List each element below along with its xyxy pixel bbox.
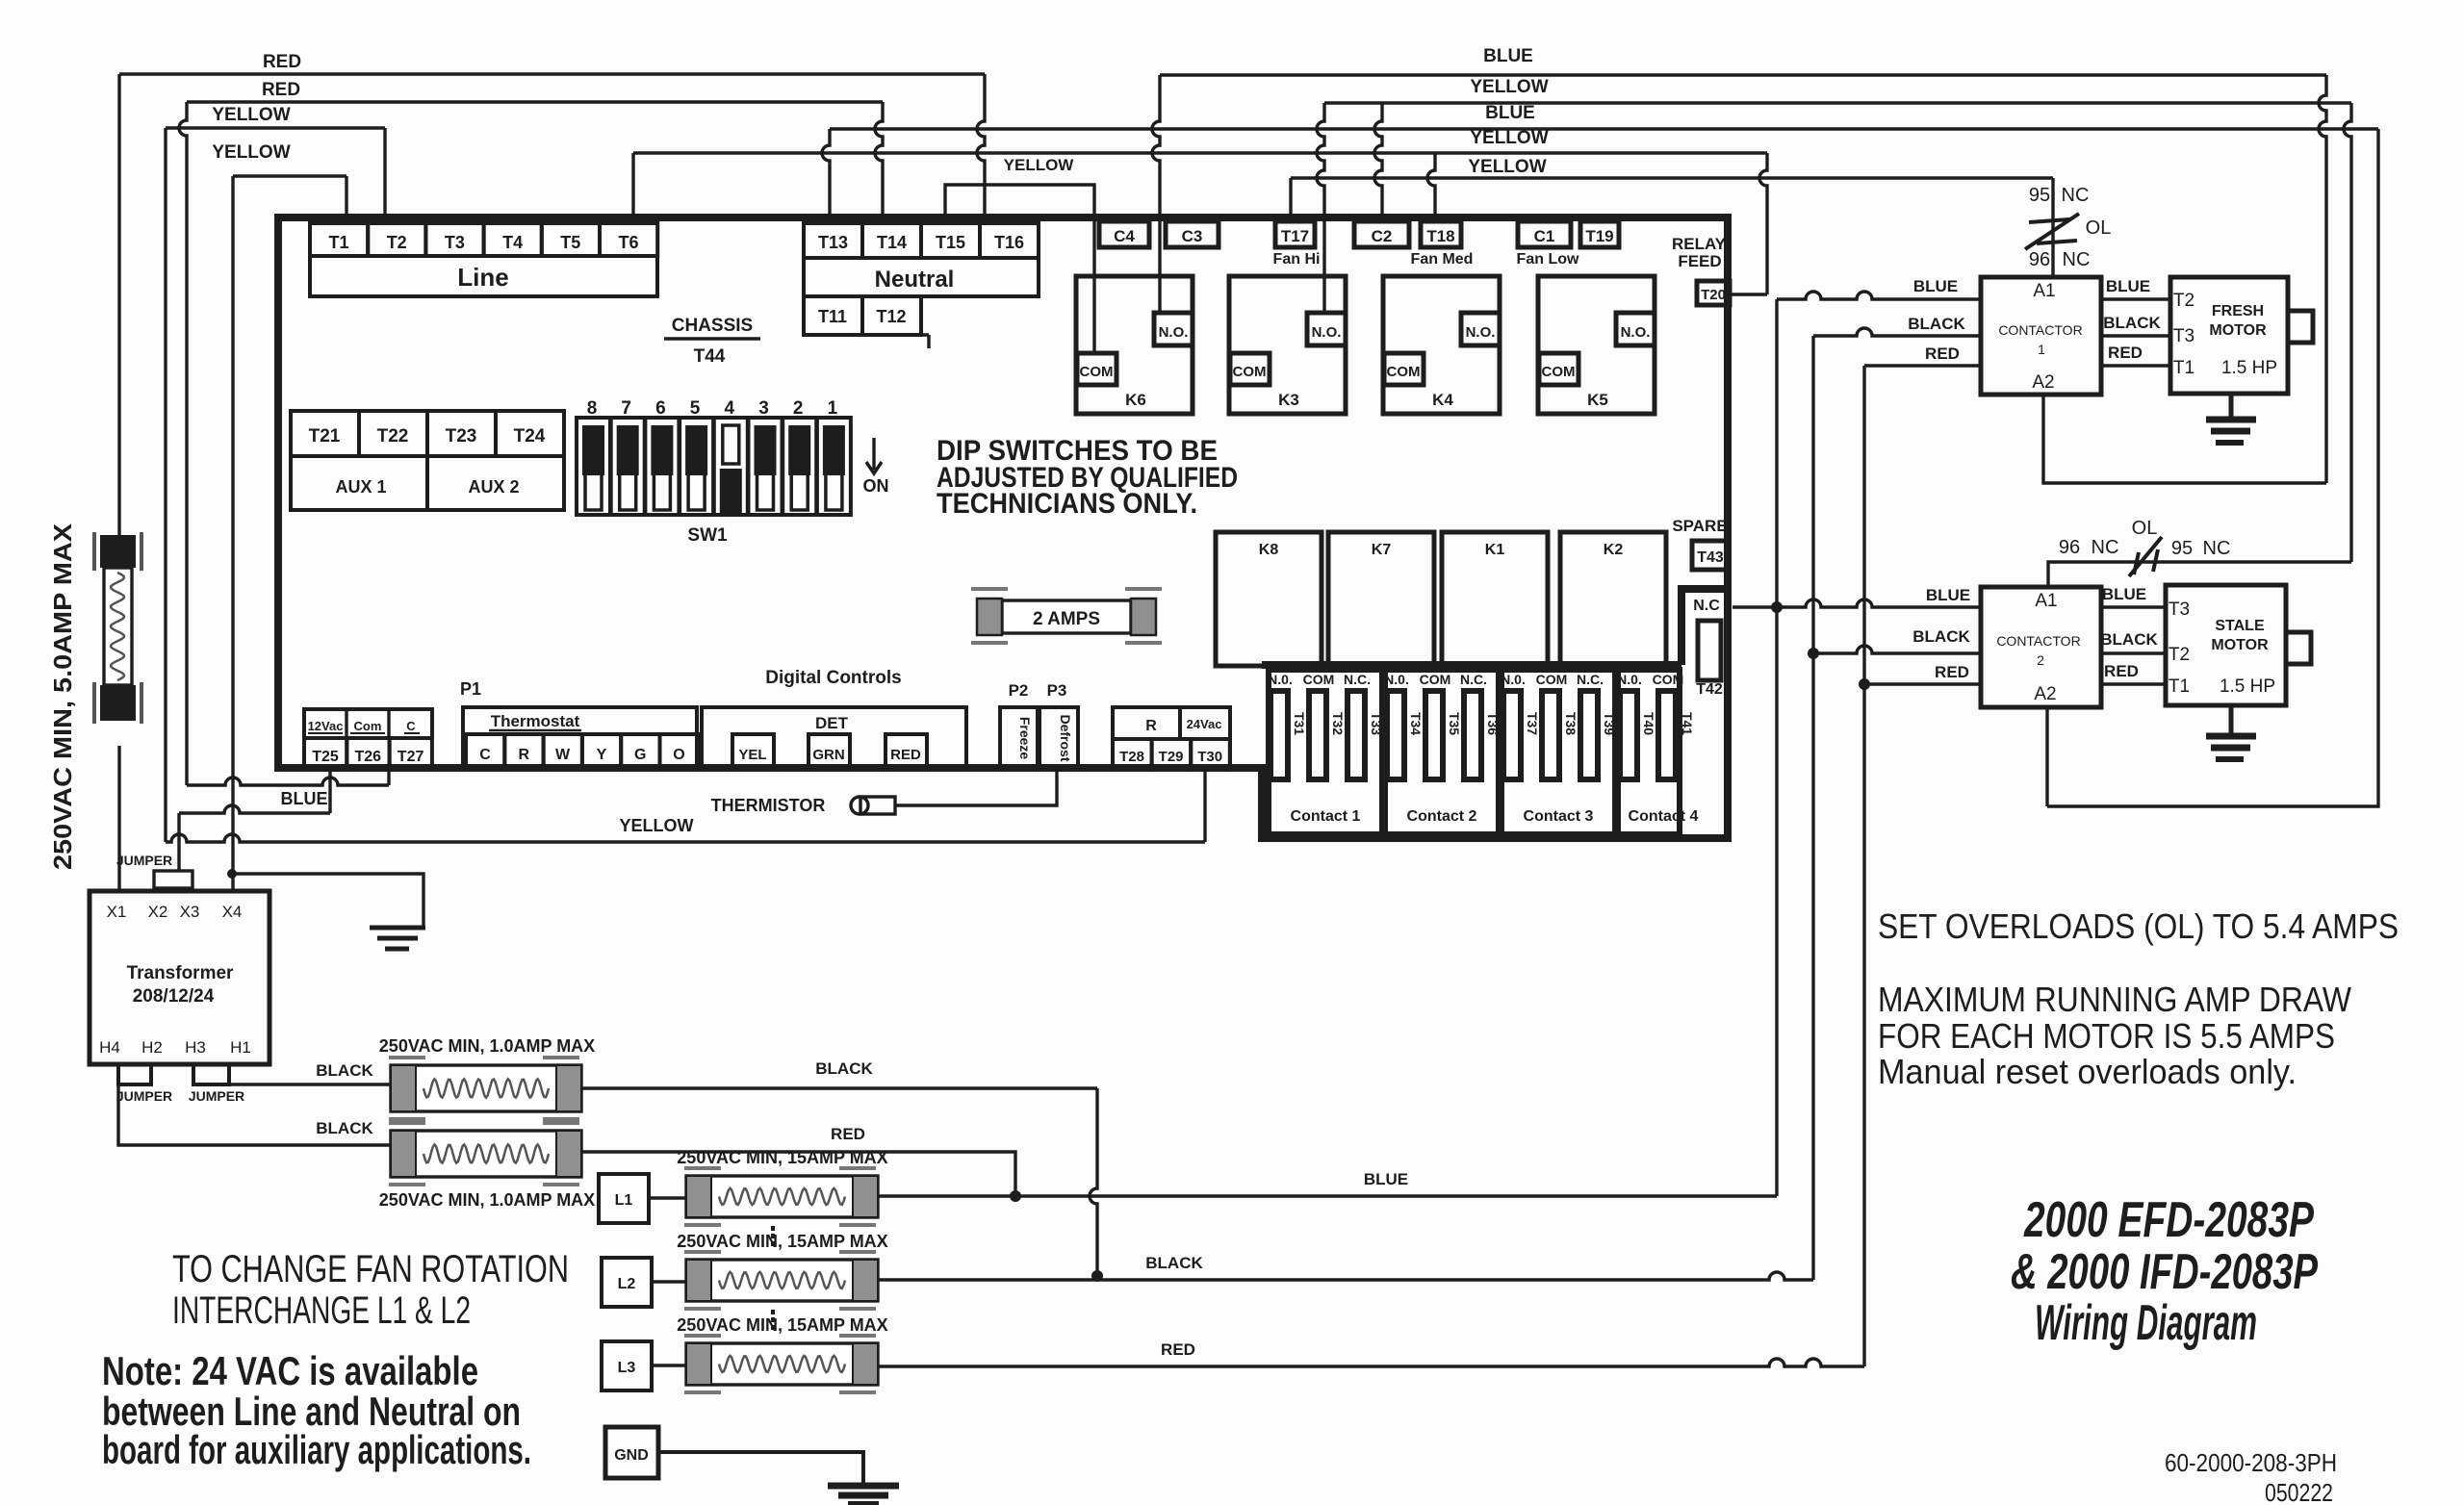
svg-text:H3: H3 xyxy=(185,1038,206,1057)
svg-text:RED: RED xyxy=(1925,344,1960,363)
svg-text:O: O xyxy=(673,747,684,763)
svg-text:T2: T2 xyxy=(2173,291,2194,311)
svg-text:ON: ON xyxy=(863,476,889,496)
svg-text:N.0.: N.0. xyxy=(1384,672,1409,687)
svg-text:YELLOW: YELLOW xyxy=(212,142,290,163)
svg-text:208/12/24: 208/12/24 xyxy=(133,986,215,1007)
svg-text:THERMISTOR: THERMISTOR xyxy=(711,796,826,815)
svg-text:T3: T3 xyxy=(2173,326,2194,346)
svg-text:N.O.: N.O. xyxy=(1466,324,1496,341)
svg-text:C4: C4 xyxy=(1114,227,1135,245)
svg-text:T37: T37 xyxy=(1525,712,1540,735)
svg-text:T34: T34 xyxy=(1408,712,1424,735)
svg-text:T12: T12 xyxy=(876,307,906,326)
svg-text:050222: 050222 xyxy=(2265,1478,2333,1505)
svg-text:24Vac: 24Vac xyxy=(1187,717,1222,731)
svg-text:1.5 HP: 1.5 HP xyxy=(2220,676,2275,697)
svg-text:K8: K8 xyxy=(1259,542,1279,558)
svg-text:2: 2 xyxy=(2037,652,2044,668)
svg-text:250VAC MIN, 5.0AMP MAX: 250VAC MIN, 5.0AMP MAX xyxy=(48,523,77,870)
svg-text:K2: K2 xyxy=(1604,542,1624,558)
svg-text:P2: P2 xyxy=(1009,681,1029,700)
svg-text:3: 3 xyxy=(758,398,769,419)
svg-text:JUMPER: JUMPER xyxy=(116,1088,172,1104)
svg-text:250VAC MIN, 15AMP MAX: 250VAC MIN, 15AMP MAX xyxy=(677,1148,887,1167)
svg-text:250VAC MIN, 15AMP MAX: 250VAC MIN, 15AMP MAX xyxy=(677,1232,887,1251)
svg-text:BLACK: BLACK xyxy=(815,1059,873,1078)
svg-text:250VAC MIN, 15AMP MAX: 250VAC MIN, 15AMP MAX xyxy=(677,1315,887,1335)
svg-text:T26: T26 xyxy=(355,749,382,765)
svg-text:K3: K3 xyxy=(1278,391,1299,409)
svg-text:5: 5 xyxy=(690,398,701,419)
svg-text:CONTACTOR: CONTACTOR xyxy=(1996,633,2080,649)
svg-text:Y: Y xyxy=(597,747,607,763)
svg-text:FOR EACH MOTOR IS 5.5 AMPS: FOR EACH MOTOR IS 5.5 AMPS xyxy=(1878,1016,2335,1056)
svg-text:T44: T44 xyxy=(694,346,726,367)
svg-text:T29: T29 xyxy=(1159,749,1184,765)
svg-text:N.C.: N.C. xyxy=(1460,672,1487,687)
svg-text:A1: A1 xyxy=(2035,591,2057,611)
svg-text:4: 4 xyxy=(725,398,735,419)
svg-text:N.C: N.C xyxy=(1693,598,1720,614)
svg-text:2: 2 xyxy=(793,398,804,419)
svg-text:T16: T16 xyxy=(994,233,1024,252)
svg-text:96: 96 xyxy=(2059,537,2080,558)
svg-text:board for auxiliary applicatio: board for auxiliary applications. xyxy=(102,1427,531,1472)
svg-text:COM: COM xyxy=(1387,364,1421,380)
svg-text:T14: T14 xyxy=(877,233,907,252)
svg-text:RED: RED xyxy=(2108,344,2143,362)
svg-text:T23: T23 xyxy=(446,426,477,446)
svg-text:T21: T21 xyxy=(309,426,341,446)
svg-text:C: C xyxy=(406,719,416,733)
svg-text:K6: K6 xyxy=(1125,391,1146,409)
svg-text:H2: H2 xyxy=(141,1038,163,1057)
svg-text:BLACK: BLACK xyxy=(316,1061,373,1080)
svg-text:60-2000-208-3PH: 60-2000-208-3PH xyxy=(2165,1448,2337,1477)
svg-text:T2: T2 xyxy=(387,233,407,252)
svg-text:SET OVERLOADS (OL) TO 5.4 AMPS: SET OVERLOADS (OL) TO 5.4 AMPS xyxy=(1878,906,2399,946)
svg-text:BLUE: BLUE xyxy=(281,789,328,808)
svg-text:T17: T17 xyxy=(1281,227,1309,245)
svg-text:BLACK: BLACK xyxy=(1145,1254,1203,1272)
svg-text:L3: L3 xyxy=(618,1360,636,1376)
svg-text:GND: GND xyxy=(614,1447,649,1464)
svg-text:BLUE: BLUE xyxy=(1364,1170,1408,1188)
svg-text:FRESH: FRESH xyxy=(2212,303,2264,319)
svg-text:2 AMPS: 2 AMPS xyxy=(1033,609,1100,629)
svg-text:R: R xyxy=(1145,718,1157,734)
svg-text:H1: H1 xyxy=(230,1038,251,1057)
svg-text:Note: 24 VAC is available: Note: 24 VAC is available xyxy=(102,1348,478,1393)
svg-text:BLUE: BLUE xyxy=(1485,103,1535,123)
svg-text:YELLOW: YELLOW xyxy=(1470,128,1548,148)
svg-text:BLACK: BLACK xyxy=(316,1119,373,1137)
svg-text:T35: T35 xyxy=(1447,712,1462,735)
svg-text:C3: C3 xyxy=(1182,227,1203,245)
svg-text:BLACK: BLACK xyxy=(2103,314,2161,332)
svg-text:BLACK: BLACK xyxy=(1912,627,1970,646)
svg-text:N.O.: N.O. xyxy=(1159,324,1189,341)
svg-text:BLUE: BLUE xyxy=(1926,586,1970,604)
svg-text:T32: T32 xyxy=(1330,712,1346,735)
svg-text:T6: T6 xyxy=(618,233,638,252)
svg-text:NC: NC xyxy=(2063,249,2091,270)
svg-text:RED: RED xyxy=(2104,662,2139,680)
svg-text:N.0.: N.0. xyxy=(1268,672,1293,687)
svg-text:2000 EFD-2083P: 2000 EFD-2083P xyxy=(2023,1192,2314,1248)
svg-text:R: R xyxy=(519,747,530,763)
svg-text:& 2000 IFD-2083P: & 2000 IFD-2083P xyxy=(2011,1244,2318,1300)
svg-text:X4: X4 xyxy=(222,903,243,921)
svg-text:L2: L2 xyxy=(618,1276,636,1292)
svg-text:N.O.: N.O. xyxy=(1621,324,1651,341)
svg-text:BLUE: BLUE xyxy=(1483,46,1533,66)
svg-text:BLUE: BLUE xyxy=(1913,277,1958,295)
svg-text:TO CHANGE FAN ROTATION: TO CHANGE FAN ROTATION xyxy=(172,1248,569,1290)
svg-text:SPARE: SPARE xyxy=(1672,517,1727,535)
svg-text:T20: T20 xyxy=(1701,287,1726,303)
svg-text:CONTACTOR: CONTACTOR xyxy=(1998,322,2082,338)
svg-text:JUMPER: JUMPER xyxy=(189,1088,244,1104)
svg-text:C2: C2 xyxy=(1372,227,1393,245)
svg-text:T43: T43 xyxy=(1697,549,1724,566)
svg-text:YEL: YEL xyxy=(738,747,766,763)
svg-text:YELLOW: YELLOW xyxy=(1468,157,1546,177)
svg-text:T19: T19 xyxy=(1585,227,1613,245)
svg-text:Defrost: Defrost xyxy=(1058,714,1073,761)
svg-text:GRN: GRN xyxy=(812,747,844,763)
svg-text:X2: X2 xyxy=(148,903,168,921)
svg-text:RED: RED xyxy=(890,747,921,763)
svg-text:T4: T4 xyxy=(502,233,523,252)
svg-text:P1: P1 xyxy=(460,679,481,699)
svg-text:BLACK: BLACK xyxy=(2100,630,2158,649)
svg-text:NC: NC xyxy=(2092,537,2119,558)
svg-text:1: 1 xyxy=(828,398,838,419)
svg-text:H4: H4 xyxy=(99,1038,120,1057)
svg-text:Neutral: Neutral xyxy=(875,267,955,293)
svg-text:T31: T31 xyxy=(1292,712,1307,735)
svg-text:SW1: SW1 xyxy=(687,525,728,546)
svg-text:COM: COM xyxy=(1542,364,1576,380)
svg-text:T22: T22 xyxy=(377,426,409,446)
svg-text:Contact 4: Contact 4 xyxy=(1629,808,1699,825)
svg-text:K1: K1 xyxy=(1485,542,1505,558)
svg-text:Fan Med: Fan Med xyxy=(1411,251,1474,268)
svg-text:X3: X3 xyxy=(180,903,200,921)
svg-text:COM: COM xyxy=(1536,672,1568,687)
svg-text:MOTOR: MOTOR xyxy=(2211,637,2269,653)
svg-text:T33: T33 xyxy=(1369,712,1384,735)
svg-text:Com: Com xyxy=(354,719,382,733)
svg-text:K4: K4 xyxy=(1432,391,1453,409)
svg-text:T39: T39 xyxy=(1602,712,1617,735)
svg-text:TECHNICIANS ONLY.: TECHNICIANS ONLY. xyxy=(937,488,1197,520)
svg-text:Wiring Diagram: Wiring Diagram xyxy=(2035,1295,2257,1351)
svg-text:N.O.: N.O. xyxy=(1312,324,1342,341)
svg-text:Digital Controls: Digital Controls xyxy=(765,668,901,688)
svg-text:Contact 1: Contact 1 xyxy=(1291,808,1361,825)
svg-text:AUX 2: AUX 2 xyxy=(468,477,519,497)
svg-text:RED: RED xyxy=(263,52,301,72)
svg-text:Manual reset overloads only.: Manual reset overloads only. xyxy=(1878,1052,2297,1091)
svg-text:T38: T38 xyxy=(1563,712,1578,735)
svg-text:P3: P3 xyxy=(1047,681,1067,700)
svg-text:MOTOR: MOTOR xyxy=(2209,322,2267,339)
svg-text:250VAC MIN, 1.0AMP MAX: 250VAC MIN, 1.0AMP MAX xyxy=(379,1036,595,1056)
svg-text:YELLOW: YELLOW xyxy=(212,105,290,125)
svg-text:T13: T13 xyxy=(818,233,848,252)
svg-text:AUX 1: AUX 1 xyxy=(335,477,386,497)
svg-text:G: G xyxy=(634,747,646,763)
svg-text:DET: DET xyxy=(815,714,849,732)
svg-text:JUMPER: JUMPER xyxy=(116,853,172,868)
svg-text:T1: T1 xyxy=(328,233,348,252)
svg-text:N.C.: N.C. xyxy=(1344,672,1371,687)
svg-text:N.0.: N.0. xyxy=(1617,672,1642,687)
svg-text:BLUE: BLUE xyxy=(2106,277,2150,295)
svg-text:COM: COM xyxy=(1233,364,1267,380)
svg-text:NC: NC xyxy=(2062,185,2090,206)
svg-text:X1: X1 xyxy=(107,903,127,921)
svg-text:INTERCHANGE L1 & L2: INTERCHANGE L1 & L2 xyxy=(172,1289,471,1332)
svg-text:W: W xyxy=(555,747,571,763)
svg-text:Fan Hi: Fan Hi xyxy=(1273,251,1321,268)
svg-text:95: 95 xyxy=(2029,185,2050,206)
svg-text:1.5 HP: 1.5 HP xyxy=(2221,358,2277,378)
svg-text:250VAC MIN, 1.0AMP MAX: 250VAC MIN, 1.0AMP MAX xyxy=(379,1190,595,1210)
svg-text:T15: T15 xyxy=(936,233,965,252)
svg-text:Thermostat: Thermostat xyxy=(491,712,580,730)
svg-text:K7: K7 xyxy=(1372,542,1392,558)
svg-text:NC: NC xyxy=(2203,538,2231,559)
svg-text:6: 6 xyxy=(655,398,666,419)
svg-text:Contact 3: Contact 3 xyxy=(1524,808,1594,825)
svg-text:BLACK: BLACK xyxy=(1908,315,1965,333)
svg-text:T3: T3 xyxy=(445,233,465,252)
svg-text:95: 95 xyxy=(2171,538,2193,559)
svg-text:T28: T28 xyxy=(1119,749,1144,765)
svg-text:C: C xyxy=(479,747,491,763)
svg-text:COM: COM xyxy=(1653,672,1684,687)
svg-text:STALE: STALE xyxy=(2215,618,2265,634)
svg-text:T2: T2 xyxy=(2169,645,2190,665)
svg-text:A2: A2 xyxy=(2032,372,2054,393)
svg-text:T41: T41 xyxy=(1680,712,1695,735)
svg-text:Transformer: Transformer xyxy=(127,963,234,983)
svg-text:CHASSIS: CHASSIS xyxy=(672,316,753,336)
svg-text:96: 96 xyxy=(2029,249,2050,270)
svg-text:COM: COM xyxy=(1080,364,1114,380)
svg-text:Freeze: Freeze xyxy=(1017,717,1033,760)
svg-text:1: 1 xyxy=(2038,342,2045,357)
svg-text:7: 7 xyxy=(621,398,631,419)
svg-text:RED: RED xyxy=(1161,1340,1195,1359)
svg-text:T25: T25 xyxy=(312,749,339,765)
svg-text:A1: A1 xyxy=(2033,281,2055,301)
svg-text:COM: COM xyxy=(1420,672,1451,687)
svg-text:T11: T11 xyxy=(818,307,847,326)
svg-text:T5: T5 xyxy=(560,233,580,252)
svg-text:RELAY: RELAY xyxy=(1672,235,1727,253)
svg-text:T24: T24 xyxy=(514,426,546,446)
svg-text:T27: T27 xyxy=(398,749,424,765)
svg-text:RED: RED xyxy=(831,1125,865,1143)
svg-text:Line: Line xyxy=(457,263,508,292)
svg-text:OL: OL xyxy=(2132,518,2158,539)
svg-text:N.C.: N.C. xyxy=(1577,672,1604,687)
svg-text:YELLOW: YELLOW xyxy=(1470,77,1548,97)
svg-text:COM: COM xyxy=(1303,672,1335,687)
svg-text:12Vac: 12Vac xyxy=(308,719,344,733)
svg-text:K5: K5 xyxy=(1587,391,1608,409)
svg-text:C1: C1 xyxy=(1534,227,1555,245)
svg-text:8: 8 xyxy=(587,398,598,419)
svg-text:BLUE: BLUE xyxy=(2102,585,2146,603)
svg-text:T3: T3 xyxy=(2169,599,2190,620)
svg-text:FEED: FEED xyxy=(1678,252,1721,270)
svg-text:MAXIMUM RUNNING AMP DRAW: MAXIMUM RUNNING AMP DRAW xyxy=(1878,980,2351,1019)
svg-text:RED: RED xyxy=(1935,663,1969,681)
svg-text:YELLOW: YELLOW xyxy=(620,816,694,835)
svg-text:T18: T18 xyxy=(1426,227,1454,245)
svg-text:T42: T42 xyxy=(1696,681,1723,698)
svg-text:T36: T36 xyxy=(1485,712,1501,735)
svg-text:Contact 2: Contact 2 xyxy=(1407,808,1477,825)
svg-text:T30: T30 xyxy=(1197,749,1222,765)
svg-text:Fan Low: Fan Low xyxy=(1517,251,1579,268)
svg-text:T40: T40 xyxy=(1641,712,1656,735)
svg-text:T1: T1 xyxy=(2173,358,2194,378)
svg-text:A2: A2 xyxy=(2034,684,2056,704)
svg-text:RED: RED xyxy=(262,80,300,100)
svg-text:N.0.: N.0. xyxy=(1501,672,1526,687)
svg-text:T1: T1 xyxy=(2169,676,2190,697)
svg-text:L1: L1 xyxy=(615,1192,633,1209)
svg-text:YELLOW: YELLOW xyxy=(1004,156,1075,174)
svg-text:OL: OL xyxy=(2086,217,2112,239)
